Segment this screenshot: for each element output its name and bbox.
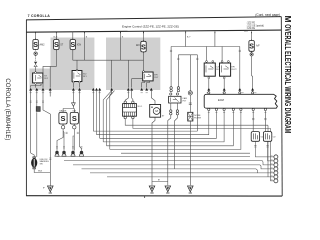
wire relay R5 to ECM bbox=[223, 79, 225, 92]
tiny connector code marks under row bbox=[30, 92, 257, 94]
ground W4 bbox=[48, 186, 54, 193]
svg-text:AM2: AM2 bbox=[40, 44, 46, 47]
svg-text:1ZZ: 1ZZ bbox=[244, 31, 249, 33]
relay R4 (circuit opening relay) bbox=[204, 61, 223, 79]
wire color ticks on ground wire bbox=[49, 158, 51, 159]
wire fuse IGN to relay R2 bbox=[73, 50, 77, 71]
svg-text:IGN: IGN bbox=[72, 110, 76, 112]
wire block B to starter motor box bbox=[151, 91, 155, 105]
wire sensor S1 to page circle 1 bbox=[255, 141, 274, 157]
wire connector to lower fuses bbox=[63, 91, 74, 113]
wire to grommet G2 bbox=[62, 131, 65, 151]
svg-text:FILTER: FILTER bbox=[194, 118, 201, 120]
wire ECM to oxygen sensor S2 bbox=[264, 111, 266, 132]
ECM pin number marks bbox=[208, 111, 267, 113]
frame top line bbox=[26, 17, 281, 20]
wire color ticks above grommets bbox=[56, 147, 82, 148]
svg-text:S: S bbox=[33, 42, 38, 49]
wires block B connectors down to ignition coil unit bbox=[125, 91, 133, 102]
svg-text:RLY2: RLY2 bbox=[232, 69, 238, 71]
svg-text:SW: SW bbox=[40, 164, 43, 166]
grommet G1 bbox=[55, 151, 59, 157]
wire fuse EFI to relay R3 bbox=[143, 52, 145, 72]
grommet G2 bbox=[62, 151, 66, 157]
bus row 2 wire bbox=[97, 111, 209, 135]
svg-text:S: S bbox=[249, 44, 254, 51]
ECM pin circles top bbox=[208, 92, 254, 94]
block B feed bus bbox=[73, 60, 144, 87]
ground W2 bbox=[165, 186, 171, 193]
fuse ST (F2) bbox=[54, 39, 64, 51]
long wire to page circle 4 bbox=[73, 165, 274, 169]
wires ignition coil unit to long bus bbox=[125, 119, 270, 129]
wire feeds to relays R4 R5 bbox=[207, 47, 223, 61]
bus row 5 wire bbox=[107, 111, 234, 146]
page connector symbol above fuse IGN2 bbox=[72, 103, 76, 107]
wire gap diagonals feeding left bus staircase bbox=[97, 91, 115, 146]
page connector circles column bbox=[274, 155, 278, 183]
svg-text:COROLLA (EM04H1E): COROLLA (EM04H1E) bbox=[4, 78, 11, 140]
relay R5 (EFI relay no2) bbox=[220, 61, 238, 79]
svg-text:ECM: ECM bbox=[218, 98, 224, 102]
node J1 circle below fuse AM2 bbox=[34, 52, 37, 55]
wire drop x99.7 bbox=[99, 91, 101, 139]
svg-text:B-R: B-R bbox=[54, 36, 58, 38]
frame bottom border bbox=[26, 195, 282, 197]
wire bus B+ y46.5 bbox=[171, 46, 240, 48]
wires relay R2 to connector row bbox=[73, 83, 79, 88]
grommet G3 bbox=[71, 151, 75, 157]
wire color ticks right top bbox=[170, 50, 241, 59]
bus row 1 wire bbox=[93, 130, 197, 132]
wires relay R3 outputs bbox=[132, 79, 150, 88]
relay R3 (EFI main relay) bbox=[143, 71, 159, 81]
svg-text:S: S bbox=[54, 42, 59, 49]
connector pair symbol below fuse AM2 bbox=[34, 62, 37, 67]
svg-text:W-B: W-B bbox=[38, 171, 43, 173]
wire feed node at x84.6 bbox=[84, 32, 86, 61]
tiny wire code labels under band line bbox=[54, 31, 249, 38]
svg-text:A/F: A/F bbox=[256, 45, 260, 48]
tick on bottom frame bbox=[144, 196, 146, 198]
wire bus y54.8 bbox=[178, 54, 197, 56]
connector row triangles at shaded block edge bbox=[29, 88, 254, 91]
wire connector x79.5 to grommet G4 bbox=[80, 91, 82, 151]
bus row 4 wire bbox=[103, 111, 224, 142]
relay R2 (ignition relay) bbox=[72, 69, 87, 83]
frame second line bbox=[26, 30, 281, 32]
shield marks on condenser wire bbox=[189, 103, 192, 104]
wire drop x178.4 to cam valve bbox=[177, 55, 179, 87]
valve V1 pin circles below bbox=[170, 110, 179, 115]
long wire to page circle 5 bbox=[82, 169, 275, 173]
wire drop x93.3 bbox=[92, 91, 94, 132]
wire left column x30.7 to key cylinder bbox=[31, 91, 35, 159]
wire feed fuse ST bbox=[55, 32, 57, 40]
wire left column x36.8 with inline resistor block bbox=[36, 91, 38, 157]
wire drop x197.4 to bus row 1 bbox=[196, 55, 198, 131]
starter motor M1 bbox=[150, 105, 165, 118]
inline connector double circles x178.4 bbox=[177, 87, 179, 89]
unlock warning switch key cylinder bbox=[31, 157, 49, 169]
svg-text:7 COROLLA: 7 COROLLA bbox=[28, 14, 51, 18]
long wire row y153.2 bbox=[121, 152, 250, 154]
ground W1 bbox=[149, 186, 155, 193]
op ECM U1 (engine control module) bbox=[204, 94, 277, 108]
wire dashed below node J1 bbox=[35, 55, 37, 61]
svg-text:Engine Control (3ZZ-FE, 1ZZ-FE: Engine Control (3ZZ-FE, 1ZZ-FE, 2ZZ-GE) bbox=[122, 25, 179, 29]
shaded block B (engine room J/B area) bbox=[106, 38, 160, 91]
wire color tick marks left column bbox=[30, 101, 44, 102]
wire vertical x268 to circle column bbox=[107, 125, 274, 181]
wire condenser to ground W3 bbox=[189, 121, 191, 185]
svg-text:S: S bbox=[61, 114, 66, 123]
svg-text:M: M bbox=[283, 16, 292, 23]
wire ECM to oxygen sensor S1 bbox=[252, 111, 254, 132]
wire feed node at x185.7 bbox=[185, 32, 187, 47]
tick marks on band line bbox=[36, 32, 252, 34]
svg-text:RLY: RLY bbox=[44, 78, 49, 80]
long wire row y172.9 bbox=[90, 172, 258, 174]
bus row 6 wire bbox=[110, 111, 241, 150]
wire stub x50.2 bbox=[49, 91, 51, 97]
tiny labels left of page circles bbox=[271, 156, 273, 180]
wire color ticks beside fuse nodes bbox=[66, 132, 79, 133]
svg-text:S: S bbox=[72, 114, 77, 123]
ground bracket IE bbox=[152, 180, 168, 182]
wire left column x43 bbox=[43, 91, 50, 114]
wire starter motor to ground W1 bbox=[152, 117, 155, 185]
wire relay R4 to ECM bbox=[208, 79, 210, 92]
svg-text:ST: ST bbox=[60, 44, 64, 47]
svg-text:EFI: EFI bbox=[136, 44, 140, 47]
condenser C1 bbox=[188, 112, 202, 121]
grommet G4 bbox=[79, 151, 83, 157]
svg-text:S: S bbox=[141, 44, 146, 51]
svg-text:IGN: IGN bbox=[77, 44, 82, 47]
wire fuse GAUGE to grommet G1 bbox=[57, 124, 63, 151]
condenser grommet bbox=[188, 91, 192, 95]
wire drop x239.8 to ECM pin bbox=[239, 47, 241, 93]
fuse IGN2 (F7) bbox=[70, 110, 78, 125]
wire feed fuse IGN bbox=[72, 32, 74, 40]
svg-text:RLY: RLY bbox=[154, 77, 159, 79]
svg-text:: 2ZZ-GE (partial): : 2ZZ-GE (partial) bbox=[246, 24, 264, 27]
wire color ticks near O2 sensors bbox=[252, 118, 269, 147]
wire fuse AM2 to relay R1 bbox=[35, 67, 37, 73]
fuse IGN (F3) bbox=[70, 39, 81, 51]
frame right border bbox=[280, 17, 283, 196]
shaded block A (junction block area, L-shape) bbox=[30, 38, 95, 91]
wires valve V1 to ground W2 bbox=[168, 103, 178, 185]
inline connector double circles x171.1 bbox=[170, 87, 180, 92]
wire fuse IGN2 to grommet G3 bbox=[73, 124, 74, 151]
wire drop x190.3 to condenser grommet bbox=[189, 55, 191, 91]
wire feed fuse A/F bbox=[251, 32, 253, 41]
cam timing oil control valve V1 bbox=[169, 93, 187, 103]
wire key cylinder to ground W4 bbox=[34, 114, 50, 186]
node circle below fuse A/F bbox=[250, 53, 253, 56]
svg-text:: 1ZZ-FE: : 1ZZ-FE bbox=[246, 28, 256, 30]
ECM pin circles bottom bbox=[208, 108, 267, 110]
svg-text:S: S bbox=[70, 42, 75, 49]
fuse EFI (F4) bbox=[136, 40, 146, 52]
node circle below fuse GAUGE bbox=[61, 126, 64, 129]
long wire to page circle 3 bbox=[64, 160, 274, 165]
wire feed fuse AM2 bbox=[35, 32, 37, 40]
wire sensor S2 to page circle 2 bbox=[268, 141, 274, 161]
svg-text:B-Y: B-Y bbox=[187, 36, 191, 38]
svg-text:OVERALL ELECTRICAL WIRING DIAG: OVERALL ELECTRICAL WIRING DIAGRAM bbox=[283, 24, 293, 133]
ground W3 bbox=[188, 186, 194, 193]
svg-text:RLY: RLY bbox=[83, 76, 88, 78]
oxygen sensor S2 bbox=[263, 132, 276, 142]
wire fuse ST down and left bbox=[43, 50, 56, 88]
wire feed node at x117.3 bbox=[120, 32, 122, 61]
wire feed node at x214.9 bbox=[214, 32, 216, 47]
fuse AM2 (F1) bbox=[33, 39, 45, 51]
node circle below fuse IGN2 bbox=[73, 126, 76, 129]
inline component on wire x36.8 bbox=[36, 107, 40, 112]
band legend engine codes bbox=[246, 23, 264, 30]
wire grommet to condenser bbox=[189, 95, 191, 112]
wire drop x171.1 to cam valve bbox=[170, 47, 172, 87]
fuse A/F (F5) bbox=[249, 40, 260, 53]
svg-text:: 3ZZ-FE: : 3ZZ-FE bbox=[246, 23, 256, 25]
svg-text:GAUGE: GAUGE bbox=[59, 109, 67, 112]
oxygen sensor S1 bbox=[251, 132, 264, 142]
wire fuse A/F to ECM bbox=[252, 51, 253, 92]
fuse GAUGE (F6) bbox=[59, 109, 67, 125]
relay R1 (starter relay) bbox=[33, 72, 49, 85]
bus row 3 wire bbox=[100, 111, 217, 139]
wire feed fuse EFI bbox=[143, 32, 145, 42]
frame left border bbox=[25, 20, 27, 196]
long wire to page circle 1 bbox=[57, 155, 250, 157]
wire drop x109.8 from connector 111.7 bbox=[110, 91, 112, 150]
ignition coil unit (noise filter) bbox=[123, 101, 144, 119]
wire relay R1 to connector row bbox=[31, 84, 41, 87]
